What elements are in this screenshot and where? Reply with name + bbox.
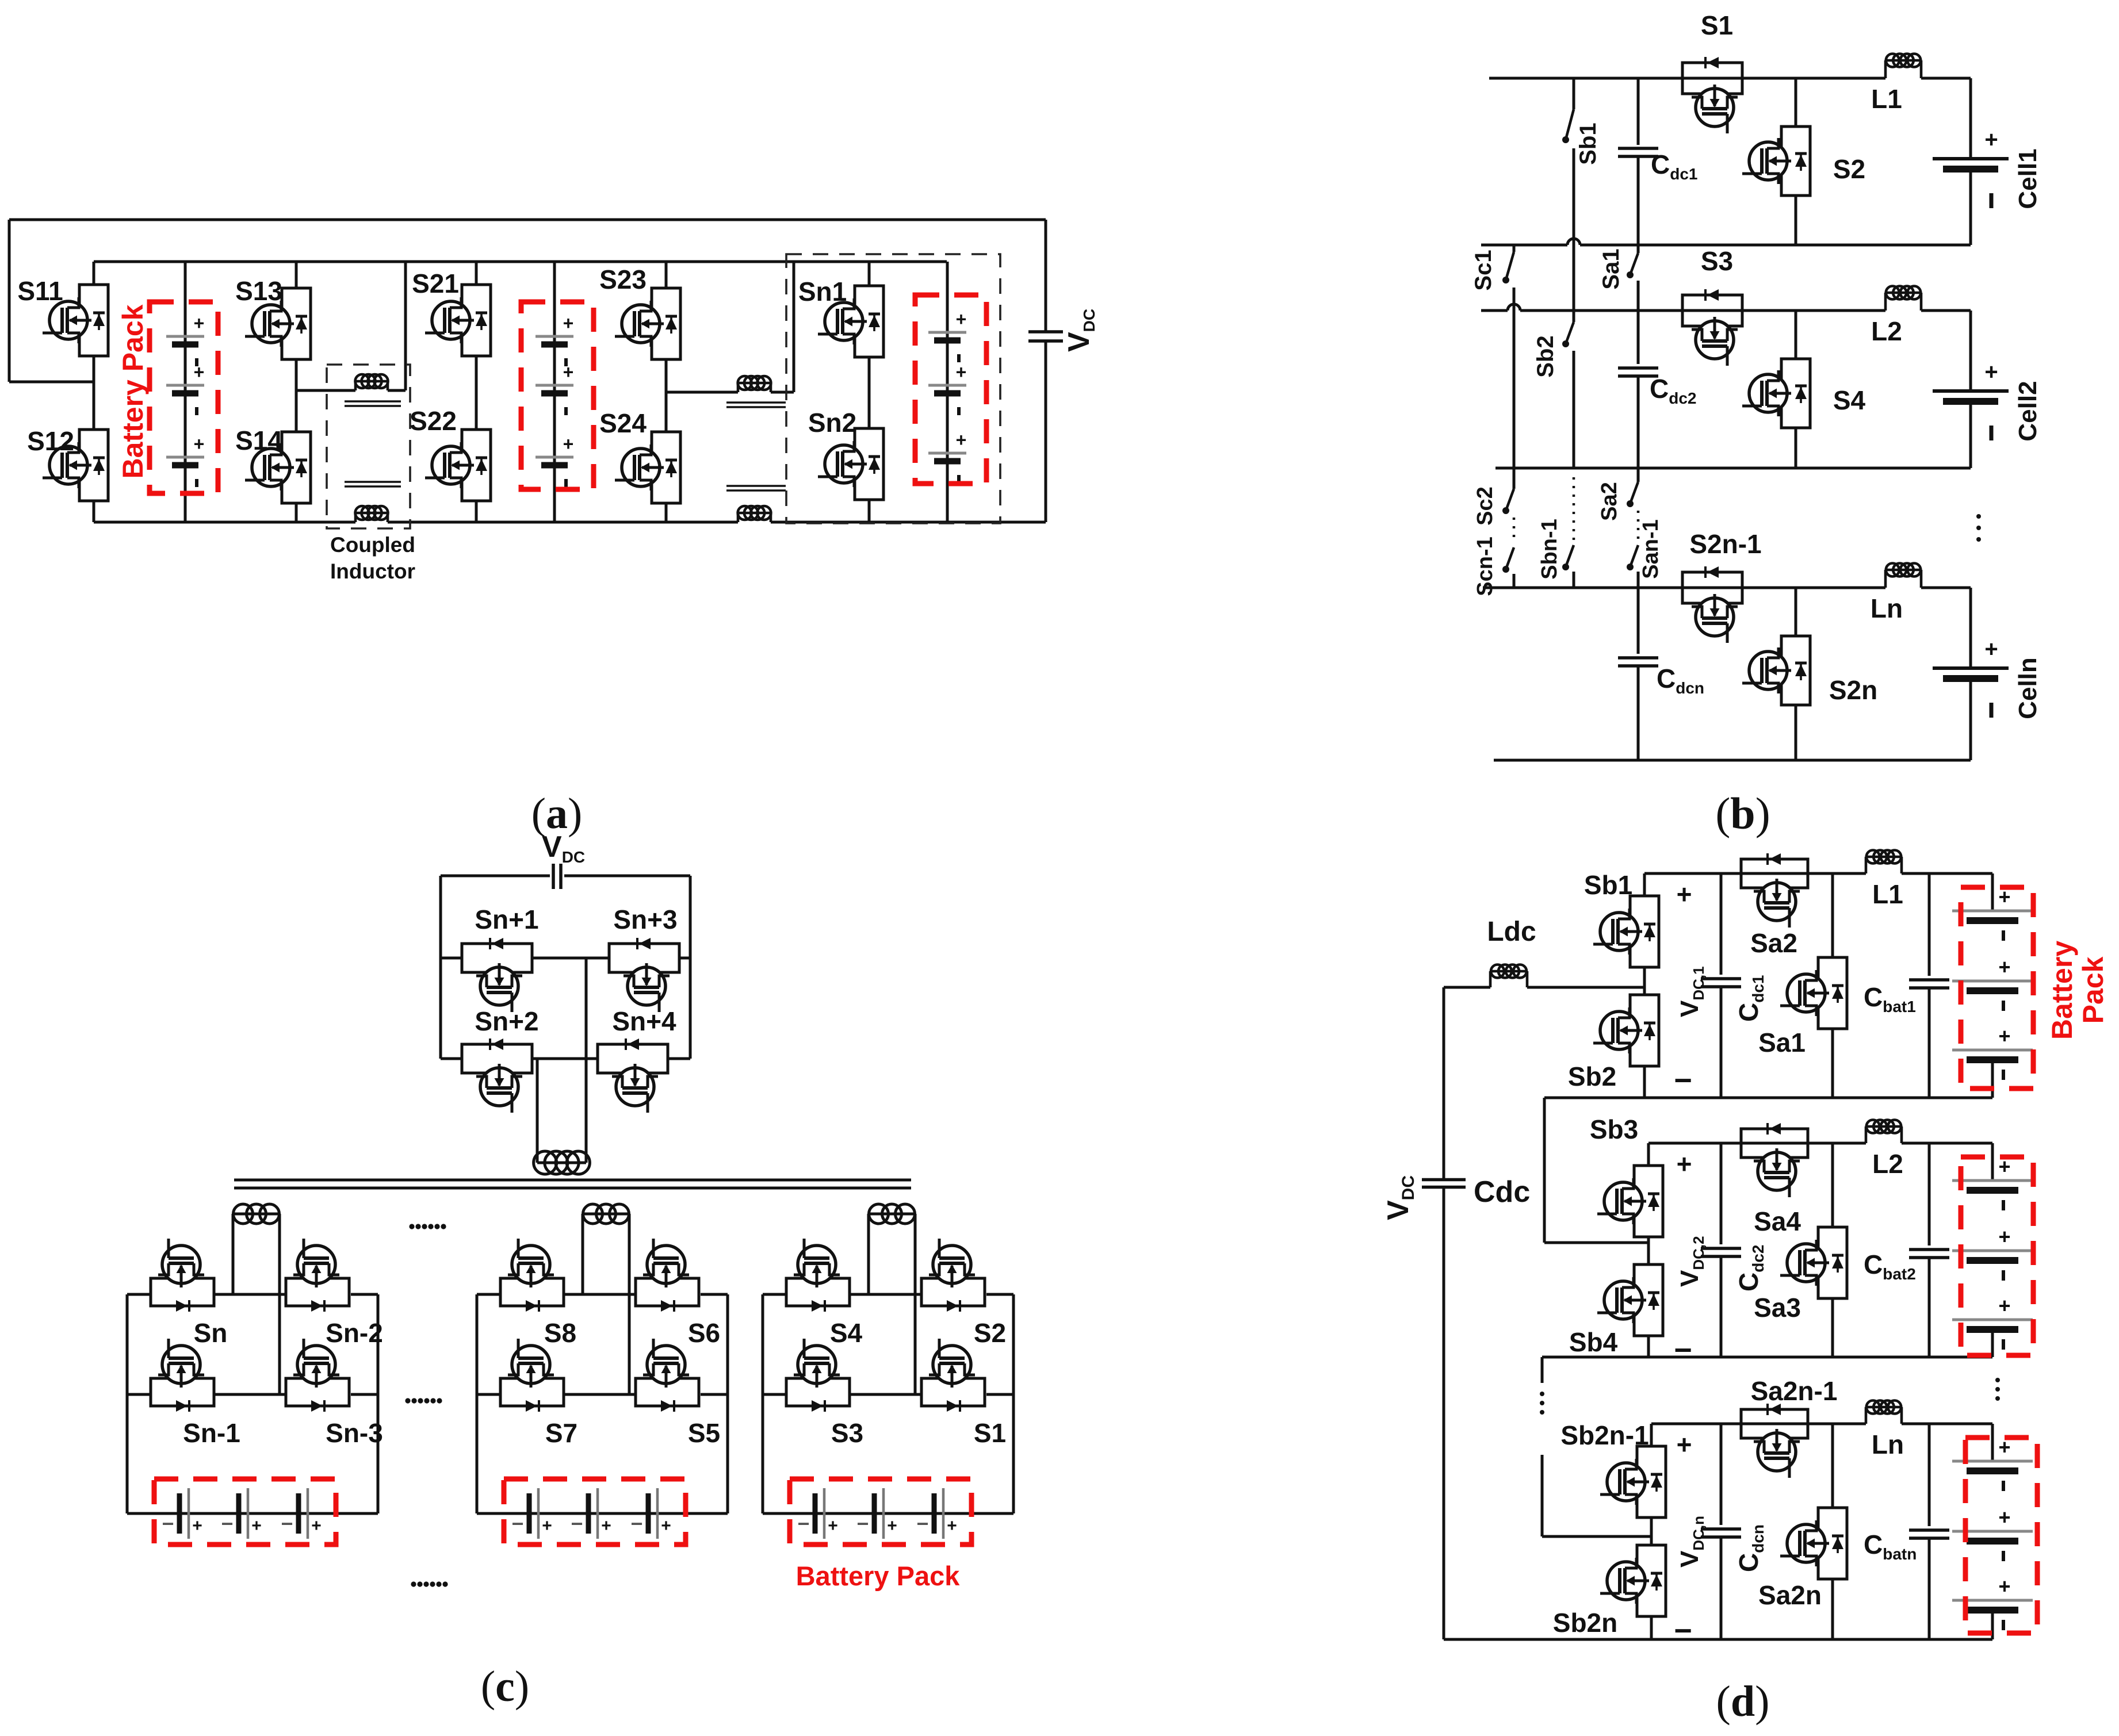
transformer secondary winding bbox=[232, 1214, 235, 1294]
transistor S14 bbox=[282, 432, 311, 503]
wire Sb2n-1-Sb2n mid bbox=[1650, 1517, 1653, 1545]
battery pack 1 red outline bbox=[1961, 887, 2033, 1089]
transistor S11 bbox=[93, 262, 95, 285]
transistor Sn-2 bbox=[286, 1278, 349, 1306]
battery pack red outline bbox=[154, 1479, 336, 1545]
svg-text:Sa2n: Sa2n bbox=[1758, 1580, 1822, 1610]
svg-text:+: + bbox=[887, 1516, 897, 1535]
svg-text:Sbn-1: Sbn-1 bbox=[1537, 519, 1562, 580]
svg-text:L1: L1 bbox=[1871, 84, 1902, 114]
wire module top rail bbox=[1648, 1142, 1866, 1145]
svg-text:−: − bbox=[630, 1512, 642, 1535]
svg-text:Ln: Ln bbox=[1871, 593, 1903, 623]
svg-text:S23: S23 bbox=[599, 265, 647, 294]
inductor L2 bbox=[1884, 293, 1887, 311]
wire Sa chain bbox=[1637, 78, 1640, 145]
coupled inductor 1 core bbox=[345, 400, 401, 402]
switch Sc1 bbox=[1513, 245, 1516, 252]
svg-text:Sb2n-1: Sb2n-1 bbox=[1560, 1420, 1648, 1450]
wire rail module2 top bbox=[1481, 309, 1508, 312]
svg-text:+: + bbox=[194, 313, 205, 334]
transistor S2n-1 bbox=[1682, 572, 1742, 603]
transistor S3 bbox=[1682, 295, 1742, 326]
dots module continuation right bbox=[1976, 514, 1981, 519]
svg-text:+: + bbox=[956, 430, 967, 450]
transistor Sb1 bbox=[1643, 873, 1646, 896]
svg-text:Sn: Sn bbox=[194, 1318, 228, 1348]
wire module sides bbox=[476, 1294, 479, 1513]
wire battery rail bbox=[763, 1512, 1013, 1515]
wire rail mid1 bbox=[1481, 244, 1567, 247]
svg-text:+: + bbox=[1998, 1294, 2010, 1317]
svg-text:Sa2n-1: Sa2n-1 bbox=[1751, 1376, 1838, 1406]
svg-text:+: + bbox=[1677, 879, 1692, 909]
capacitor Cbat1 bbox=[1928, 873, 1931, 976]
svg-text:S2n: S2n bbox=[1829, 675, 1877, 705]
svg-text:−: − bbox=[1674, 1333, 1692, 1367]
coupled inductor 1 winding bottom bbox=[354, 513, 357, 522]
svg-text:S14: S14 bbox=[235, 426, 282, 455]
svg-text:S12: S12 bbox=[27, 426, 74, 456]
svg-text:L2: L2 bbox=[1871, 316, 1902, 346]
svg-text:(c): (c) bbox=[481, 1662, 529, 1711]
wire S11-S12 mid bbox=[93, 356, 95, 430]
wire module sides bbox=[762, 1294, 764, 1513]
battery cell bbox=[1952, 1530, 2033, 1533]
svg-text:Sb3: Sb3 bbox=[1590, 1114, 1638, 1144]
svg-text:Sb1: Sb1 bbox=[1584, 870, 1632, 900]
transistor Sn bbox=[151, 1278, 214, 1306]
battery cell bbox=[1952, 1049, 2033, 1052]
svg-text:Celln: Celln bbox=[2014, 657, 2042, 719]
dots continuation right bbox=[1995, 1378, 2000, 1382]
wire Sn1-Sn2 mid bbox=[868, 357, 871, 428]
wire module top rail bbox=[1651, 1423, 1866, 1425]
battery cell bbox=[1952, 1179, 2033, 1182]
svg-text:+: + bbox=[194, 434, 205, 454]
svg-text:Sn1: Sn1 bbox=[798, 277, 847, 306]
battery cell bbox=[536, 335, 573, 338]
svg-text:Cell1: Cell1 bbox=[2014, 148, 2042, 209]
svg-text:Sb4: Sb4 bbox=[1569, 1327, 1618, 1357]
battery cell bbox=[527, 1493, 532, 1534]
coupled inductor 2 core bbox=[726, 401, 786, 403]
svg-text:+: + bbox=[563, 313, 574, 334]
svg-text:Sb2n: Sb2n bbox=[1553, 1608, 1617, 1638]
svg-text:Coupled: Coupled bbox=[330, 533, 415, 557]
transistor Sa1 bbox=[1831, 873, 1834, 957]
transistor S1 bbox=[1682, 63, 1742, 94]
transistor Sb2n-1 bbox=[1650, 1424, 1653, 1446]
wire S13-S14 mid bbox=[295, 359, 298, 432]
svg-text:−: − bbox=[1674, 1063, 1692, 1098]
svg-text:Sb2: Sb2 bbox=[1533, 335, 1558, 377]
transistor Sa4 bbox=[1741, 1129, 1808, 1158]
battery cell bbox=[928, 452, 966, 455]
svg-text:−: − bbox=[221, 1512, 233, 1535]
svg-text:Sc1: Sc1 bbox=[1471, 250, 1496, 290]
svg-text:−: − bbox=[281, 1512, 293, 1535]
capacitor Cbat2 bbox=[1928, 1143, 1931, 1246]
svg-text:−: − bbox=[797, 1512, 809, 1535]
wire bridge row2 bbox=[441, 1057, 462, 1060]
inductor L1 bbox=[1865, 857, 1868, 873]
svg-text:−: − bbox=[162, 1512, 174, 1535]
transistor S21 bbox=[475, 262, 478, 285]
transistor S7 bbox=[500, 1378, 564, 1406]
transistor S12 bbox=[79, 430, 108, 501]
capacitor Cdc bbox=[1422, 1178, 1466, 1182]
battery pack 2 red outline bbox=[521, 302, 594, 489]
switch Sa2 bbox=[1637, 468, 1640, 482]
transistor S4 bbox=[1795, 311, 1797, 359]
svg-text:−: − bbox=[571, 1512, 583, 1535]
inductor Ldc bbox=[1444, 986, 1490, 989]
svg-text:S2: S2 bbox=[974, 1318, 1006, 1348]
wire bridge row1 bbox=[441, 957, 462, 960]
wire row1 bbox=[763, 1293, 786, 1296]
battery pack 1 string bbox=[184, 262, 187, 522]
transistor Sn+2 bbox=[462, 1044, 532, 1073]
svg-text:(b): (b) bbox=[1715, 788, 1770, 838]
wire link module2-moduleN bbox=[1542, 1356, 1648, 1359]
svg-text:Battery Pack: Battery Pack bbox=[117, 304, 149, 478]
svg-text:(d): (d) bbox=[1716, 1677, 1770, 1726]
svg-text:−: − bbox=[1674, 1614, 1692, 1648]
wire bridge right bbox=[689, 876, 692, 958]
svg-text:Sa1: Sa1 bbox=[1598, 248, 1624, 289]
battery pack 1 red outline bbox=[150, 302, 218, 493]
transistor S2 bbox=[1795, 78, 1797, 127]
battery pack red outline bbox=[504, 1479, 686, 1545]
battery cell bbox=[177, 1493, 182, 1534]
svg-text:Sn+3: Sn+3 bbox=[613, 905, 677, 934]
battery pack n string bbox=[946, 262, 949, 522]
battery pack string bbox=[1991, 1424, 1994, 1461]
svg-text:+: + bbox=[1677, 1430, 1692, 1459]
svg-text:San-1: San-1 bbox=[1639, 519, 1663, 578]
svg-text:+: + bbox=[601, 1516, 611, 1535]
svg-text:+: + bbox=[251, 1516, 262, 1535]
svg-text:+: + bbox=[1998, 1505, 2010, 1529]
battery cell bbox=[536, 384, 573, 387]
svg-text:+: + bbox=[1984, 127, 1998, 152]
svg-text:Sa4: Sa4 bbox=[1754, 1206, 1801, 1236]
svg-text:+: + bbox=[192, 1516, 202, 1535]
svg-text:Sn-1: Sn-1 bbox=[183, 1418, 240, 1448]
svg-text:S2n-1: S2n-1 bbox=[1689, 529, 1761, 559]
battery pack red outline bbox=[790, 1479, 971, 1545]
wire Sb1-Sb2 mid bbox=[1643, 967, 1646, 995]
wire battery rail bbox=[127, 1512, 378, 1515]
dots continuation bbox=[409, 1224, 414, 1229]
transistor Sn-3 bbox=[286, 1378, 349, 1406]
transistor S8 bbox=[500, 1278, 564, 1306]
capacitor Cdcn bbox=[1637, 588, 1640, 654]
wire row2 bbox=[127, 1393, 151, 1396]
capacitor VDC bbox=[441, 875, 550, 877]
transistor Sn+4 bbox=[598, 1044, 668, 1073]
inductor Ln bbox=[1865, 1407, 1868, 1424]
svg-text:+: + bbox=[194, 362, 205, 382]
switch Sa1 bbox=[1637, 245, 1640, 253]
svg-text:Sn-2: Sn-2 bbox=[326, 1318, 383, 1348]
svg-text:Ldc: Ldc bbox=[1487, 917, 1536, 947]
svg-text:−: − bbox=[511, 1512, 523, 1535]
svg-text:Sc2: Sc2 bbox=[1473, 486, 1497, 526]
battery cell bbox=[872, 1493, 877, 1534]
module n dashed outline bbox=[786, 254, 1000, 523]
switch Sb1 bbox=[1573, 78, 1575, 109]
transistor Sa2n bbox=[1831, 1424, 1834, 1508]
transistor Sn-1 bbox=[151, 1378, 214, 1406]
svg-text:Battery: Battery bbox=[2046, 941, 2078, 1040]
svg-text:Sa3: Sa3 bbox=[1754, 1293, 1801, 1323]
transistor S1 bbox=[921, 1378, 985, 1406]
svg-text:L1: L1 bbox=[1872, 879, 1903, 909]
transistor Sb4 bbox=[1634, 1264, 1663, 1336]
svg-text:Battery Pack: Battery Pack bbox=[796, 1561, 961, 1591]
transistor Sb2 bbox=[1630, 995, 1659, 1066]
capacitor Cdc1 bbox=[1618, 147, 1658, 150]
transistor S4 bbox=[786, 1278, 850, 1306]
svg-text:Sn-3: Sn-3 bbox=[326, 1418, 383, 1448]
switch Sb2 bbox=[1566, 322, 1574, 344]
battery cell bbox=[1952, 1250, 2033, 1252]
svg-text:+: + bbox=[956, 362, 967, 382]
battery cell bbox=[166, 456, 204, 459]
wire row2 bbox=[477, 1393, 500, 1396]
transistor Sb3 bbox=[1647, 1143, 1650, 1166]
transistor S5 bbox=[636, 1378, 699, 1406]
battery cell bbox=[1952, 910, 2033, 913]
battery cell bbox=[1952, 980, 2033, 983]
svg-text:+: + bbox=[661, 1516, 671, 1535]
capacitor VDC bbox=[1045, 220, 1047, 332]
svg-text:+: + bbox=[1677, 1149, 1692, 1179]
battery cell bbox=[646, 1493, 651, 1534]
svg-text:Scn-1: Scn-1 bbox=[1473, 536, 1497, 596]
wire module bottom rail bbox=[1644, 1097, 1992, 1099]
coupled inductor 2 winding bottom bbox=[737, 513, 740, 522]
wire row1 bbox=[127, 1293, 151, 1296]
wire module top rail bbox=[1644, 872, 1866, 875]
svg-text:+: + bbox=[1998, 1024, 2010, 1048]
svg-text:+: + bbox=[311, 1516, 322, 1535]
svg-text:S11: S11 bbox=[17, 276, 63, 306]
transistor S2n bbox=[1795, 588, 1797, 636]
battery cell bbox=[236, 1493, 242, 1534]
svg-text:S1: S1 bbox=[1701, 10, 1733, 40]
svg-text:S22: S22 bbox=[410, 406, 457, 436]
wire left drop to S11/S12 midpoint bbox=[8, 220, 11, 382]
wire top rail VDC+ bbox=[9, 219, 1046, 221]
svg-text:−: − bbox=[856, 1512, 869, 1535]
wire module bottom rail bbox=[1651, 1638, 1992, 1641]
switch Sc2 bbox=[1513, 468, 1516, 489]
svg-text:Sb2: Sb2 bbox=[1568, 1061, 1616, 1091]
svg-text:S3: S3 bbox=[831, 1418, 863, 1448]
svg-text:S8: S8 bbox=[544, 1318, 576, 1348]
battery Cell1 bbox=[1969, 78, 1972, 159]
inductor L2 bbox=[1865, 1126, 1868, 1143]
wire VDC column bbox=[1443, 987, 1445, 1178]
svg-text:Sn+4: Sn+4 bbox=[612, 1006, 676, 1036]
svg-text:Sn2: Sn2 bbox=[808, 408, 856, 438]
wire bottom rail bbox=[1444, 1638, 1992, 1641]
wire rail module n bottom bbox=[1494, 759, 1971, 762]
switch San-1 bbox=[1637, 511, 1640, 541]
transistor S2 bbox=[921, 1278, 985, 1306]
transistor S3 bbox=[786, 1378, 850, 1406]
coupled inductor 2 winding top bbox=[666, 391, 738, 394]
battery pack string bbox=[1991, 1143, 1994, 1181]
transistor S6 bbox=[636, 1278, 699, 1306]
battery cell bbox=[1952, 1599, 2033, 1602]
svg-text:S24: S24 bbox=[599, 408, 647, 438]
battery cell bbox=[586, 1493, 591, 1534]
wire link module1-module2 bbox=[1544, 1097, 1644, 1099]
svg-text:S4: S4 bbox=[830, 1318, 863, 1348]
transistor Sn2 bbox=[855, 428, 883, 500]
transistor S13 bbox=[295, 262, 298, 288]
wire S21-S22 mid bbox=[475, 356, 478, 430]
wire rail mid2 bbox=[1495, 467, 1971, 470]
svg-text:+: + bbox=[563, 362, 574, 382]
svg-text:+: + bbox=[828, 1516, 838, 1535]
svg-text:+: + bbox=[1998, 1574, 2010, 1598]
battery cell bbox=[813, 1493, 818, 1534]
svg-text:Sn+1: Sn+1 bbox=[475, 905, 538, 934]
svg-text:+: + bbox=[1998, 1225, 2010, 1248]
svg-text:Ln: Ln bbox=[1872, 1430, 1904, 1459]
battery cell bbox=[296, 1493, 301, 1534]
svg-text:Sa2: Sa2 bbox=[1750, 928, 1797, 958]
capacitor Cdc2 bbox=[1637, 311, 1640, 364]
svg-text:S3: S3 bbox=[1701, 246, 1733, 276]
battery cell bbox=[932, 1493, 937, 1534]
svg-text:+: + bbox=[947, 1516, 957, 1535]
wire rail module n top bbox=[1483, 587, 1885, 589]
svg-text:S13: S13 bbox=[235, 276, 282, 306]
wire Sb3-Sb4 mid bbox=[1647, 1237, 1650, 1264]
battery pack string bbox=[1991, 873, 1994, 911]
svg-text:Sa2: Sa2 bbox=[1597, 482, 1621, 521]
svg-text:S5: S5 bbox=[688, 1418, 720, 1448]
capacitor Cdc2 bbox=[1720, 1143, 1723, 1244]
wire row2 bbox=[763, 1393, 786, 1396]
svg-text:S7: S7 bbox=[545, 1418, 577, 1448]
transistor Sn1 bbox=[868, 262, 871, 286]
svg-text:Sn+2: Sn+2 bbox=[475, 1006, 538, 1036]
battery cell bbox=[536, 456, 573, 459]
svg-text:S6: S6 bbox=[688, 1318, 720, 1348]
inductor L1 bbox=[1884, 60, 1887, 78]
transistor S23 bbox=[665, 262, 668, 288]
svg-text:+: + bbox=[1984, 637, 1998, 662]
svg-text:+: + bbox=[1998, 955, 2010, 979]
svg-text:S21: S21 bbox=[412, 269, 459, 298]
wire row1 bbox=[477, 1293, 500, 1296]
svg-text:Sb1: Sb1 bbox=[1575, 122, 1601, 164]
wire rail module1 top bbox=[1489, 77, 1885, 80]
battery pack n red outline bbox=[915, 295, 986, 484]
battery Celln bbox=[1969, 588, 1972, 668]
svg-text:Pack: Pack bbox=[2077, 956, 2109, 1024]
svg-text:Cdc: Cdc bbox=[1474, 1175, 1530, 1209]
wire module top rail bbox=[94, 260, 947, 263]
transistor S22 bbox=[462, 430, 491, 501]
dots continuation left bbox=[1540, 1392, 1544, 1396]
svg-text:Inductor: Inductor bbox=[330, 559, 415, 583]
transformer primary winding bbox=[585, 958, 588, 1163]
battery pack 2 red outline bbox=[1961, 1157, 2033, 1355]
transformer secondary winding bbox=[867, 1214, 870, 1294]
transformer secondary winding bbox=[582, 1214, 584, 1294]
capacitor Cdc1 bbox=[1720, 873, 1723, 975]
battery cell bbox=[166, 384, 204, 387]
transistor Sa2 bbox=[1741, 859, 1808, 888]
battery cell bbox=[1952, 1319, 2033, 1321]
wire module bottom rail bbox=[1648, 1356, 1992, 1359]
svg-text:+: + bbox=[956, 309, 967, 329]
battery cell bbox=[928, 384, 966, 387]
transistor Sa3 bbox=[1831, 1143, 1834, 1227]
wire bottom rail bbox=[94, 521, 355, 524]
svg-text:+: + bbox=[563, 434, 574, 454]
bus double line bbox=[234, 1179, 911, 1182]
svg-text:Sa1: Sa1 bbox=[1758, 1028, 1806, 1057]
wire bridge left bbox=[439, 876, 442, 1059]
wire battery rail bbox=[477, 1512, 728, 1515]
svg-text:−: − bbox=[916, 1512, 928, 1535]
battery cell bbox=[928, 331, 966, 334]
inductor Ln bbox=[1884, 570, 1887, 588]
battery cell bbox=[166, 335, 204, 338]
coupled inductor 1 winding top bbox=[296, 389, 355, 392]
transistor Sa2n-1 bbox=[1741, 1409, 1808, 1438]
wire S23-S24 mid bbox=[665, 359, 668, 432]
battery Cell2 bbox=[1969, 311, 1972, 391]
transistor Sn+1 bbox=[462, 944, 532, 972]
capacitor Cdcn bbox=[1720, 1424, 1723, 1525]
switch Scn-1 bbox=[1513, 518, 1516, 543]
capacitor Cbatn bbox=[1928, 1424, 1931, 1526]
svg-text:S4: S4 bbox=[1833, 385, 1866, 415]
battery cell bbox=[1952, 1460, 2033, 1463]
svg-text:L2: L2 bbox=[1872, 1149, 1903, 1179]
transistor Sb2n bbox=[1637, 1545, 1666, 1616]
coupled inductor dashed outline bbox=[327, 365, 410, 528]
svg-text:+: + bbox=[542, 1516, 552, 1535]
switch Sbn-1 bbox=[1573, 477, 1575, 541]
svg-text:S1: S1 bbox=[974, 1418, 1006, 1448]
transistor Sn+3 bbox=[609, 944, 679, 972]
svg-text:+: + bbox=[1984, 359, 1998, 385]
battery pack 2 string bbox=[553, 262, 556, 522]
wire module sides bbox=[126, 1294, 129, 1513]
transistor S24 bbox=[652, 432, 680, 503]
svg-text:S2: S2 bbox=[1833, 154, 1865, 184]
battery pack n red outline bbox=[1965, 1438, 2037, 1633]
svg-text:Cell2: Cell2 bbox=[2014, 381, 2042, 441]
